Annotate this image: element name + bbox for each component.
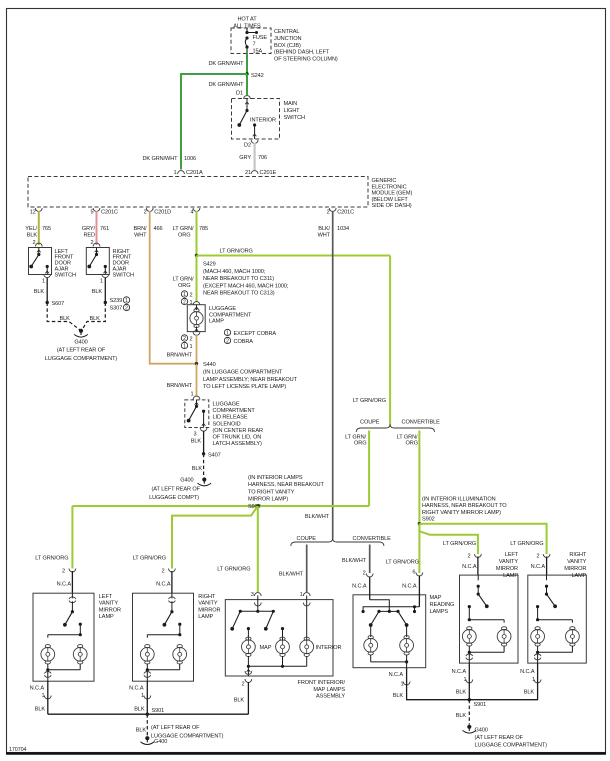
svg-text:MIRROR: MIRROR [99,607,121,613]
svg-text:SWITCH: SWITCH [113,272,135,278]
label BLK [192,466,203,472]
pin 1 right door ajar switch [100,279,103,285]
label LT GRN/ORG [35,556,68,562]
svg-text:S901: S901 [474,702,487,708]
svg-text:ORG: ORG [406,441,418,447]
svg-text:S239: S239 [110,298,123,304]
splice S239 / S307 [104,297,130,312]
svg-text:DK GRN/WHT: DK GRN/WHT [208,61,244,67]
svg-text:MIRROR: MIRROR [496,566,518,572]
svg-text:SOLENOID: SOLENOID [213,421,241,427]
svg-text:LUGGAGE: LUGGAGE [209,306,236,312]
svg-text:(AT LEFT REAR OF: (AT LEFT REAR OF [57,348,106,354]
svg-text:CONVERTIBLE: CONVERTIBLE [353,536,392,542]
svg-text:LUGGAGE COMPT): LUGGAGE COMPT) [149,495,199,501]
wire BLK front interior lamps to S901 [247,682,249,714]
svg-text:1006: 1006 [184,156,196,162]
label DK GRN/WHT 1006 [142,156,196,162]
svg-text:MODULE (GEM): MODULE (GEM) [372,191,413,197]
svg-text:VANITY: VANITY [567,559,587,565]
left door ajar switch output contact [44,265,51,278]
pin 3 solenoid [193,432,196,438]
pin D1 [236,91,250,100]
wire LT GRN/ORG S429 to luggage lamp [196,256,198,303]
svg-text:LT GRN/ORG: LT GRN/ORG [443,541,476,547]
svg-text:4: 4 [190,210,193,216]
splice S429 annotation [203,262,289,297]
labels COUPE CONVERTIBLE [360,420,440,426]
pin 2 front interior lamps [241,679,251,688]
main light switch wiper [237,99,248,127]
labels COUPE CONVERTIBLE [297,536,392,542]
label LT GRN/ORG [133,556,166,562]
label BLK/WHT [342,558,367,564]
svg-text:LT GRN/: LT GRN/ [173,277,194,283]
ground G400 label [475,728,548,749]
wire BLK S901 to G400 (convertible) [468,700,470,725]
svg-text:COBRA: COBRA [234,339,254,345]
svg-text:COMPARTMENT: COMPARTMENT [213,408,256,414]
svg-text:2: 2 [183,300,186,306]
label LT GRN/ORG [443,541,476,547]
svg-text:N.C.A: N.C.A [462,564,477,570]
svg-text:S429: S429 [203,262,216,268]
svg-text:N.C.A: N.C.A [520,669,535,675]
ground G400 label [149,478,201,502]
svg-text:2: 2 [467,554,470,560]
label DK GRN/WHT [208,82,244,88]
svg-text:2: 2 [125,306,128,312]
svg-text:12: 12 [30,210,36,216]
wire LT GRN/ORG convertible branch [418,431,420,524]
svg-text:NEAR BREAKOUT TO C311): NEAR BREAKOUT TO C311) [203,276,274,282]
svg-text:SIDE OF DASH): SIDE OF DASH) [372,203,412,209]
svg-text:LATCH ASSEMBLY): LATCH ASSEMBLY) [213,441,263,447]
splice S429 [195,254,198,257]
svg-text:1: 1 [183,292,186,298]
svg-text:(IN INTERIOR ILLUMINATION: (IN INTERIOR ILLUMINATION [422,497,496,503]
pin D2 [244,140,258,149]
svg-text:TO LEFT LICENSE PLATE LAMP): TO LEFT LICENSE PLATE LAMP) [203,384,286,390]
svg-text:2: 2 [363,571,366,577]
svg-text:2: 2 [183,336,186,342]
svg-text:LID RELEASE: LID RELEASE [213,415,248,421]
svg-text:(IN LUGGAGE COMPARTMENT: (IN LUGGAGE COMPARTMENT [203,370,283,376]
svg-text:LT GRN/ORG: LT GRN/ORG [386,560,419,566]
svg-text:D1: D1 [236,91,243,97]
svg-text:G400: G400 [180,478,193,484]
label BLK [524,690,535,696]
wire BLK right vanity to S901 (convertible) [469,663,537,700]
solenoid switch blade [187,400,199,423]
wire BRN/WHT luggage lamp to S440 [196,335,198,364]
svg-text:MIRROR: MIRROR [564,566,586,572]
front interior map lamps assembly label [298,680,346,700]
svg-text:170704: 170704 [9,747,26,753]
coupe/convertible brace (BLK/WHT) [291,538,384,546]
central junction box (CJB) outline [231,28,271,54]
svg-text:RIGHT: RIGHT [569,552,587,558]
splice S902 (convertible) [418,522,421,525]
legend except cobra / cobra [224,329,276,345]
svg-text:MAP LAMPS: MAP LAMPS [313,687,345,693]
svg-text:G400: G400 [475,728,488,734]
GEM pin 2 C201C [327,208,354,216]
svg-text:NEAR BREAKOUT TO C313): NEAR BREAKOUT TO C313) [203,291,275,297]
svg-text:GENERIC: GENERIC [372,178,397,184]
svg-text:(IN INTERIOR LAMPS: (IN INTERIOR LAMPS [248,475,303,481]
svg-text:3: 3 [193,432,196,438]
svg-text:G400: G400 [154,739,167,745]
svg-text:YEL/: YEL/ [25,226,37,232]
right front door ajar switch outline [86,248,109,275]
node HOT AT ALL TIMES feed [233,17,261,30]
pin 1 map reading lamps [389,672,410,688]
pin 2 left door ajar switch [32,240,42,247]
svg-text:JUNCTION: JUNCTION [274,36,302,42]
svg-text:LEFT: LEFT [505,552,519,558]
svg-text:LT GRN/ORG: LT GRN/ORG [217,567,250,573]
svg-text:LAMP: LAMP [571,573,586,579]
wire INTERIOR contact to D2 [253,123,257,139]
svg-text:LAMP: LAMP [99,614,114,620]
solenoid label [213,402,263,448]
svg-text:RIGHT VANITY MIRROR LAMP): RIGHT VANITY MIRROR LAMP) [422,510,501,516]
svg-text:BLK/WHT: BLK/WHT [279,572,304,578]
label BLK [134,707,145,713]
splice S242 [245,72,263,79]
svg-text:2: 2 [190,336,193,342]
label BLK [393,693,404,699]
wire BLK/WHT coupe branch to front interior lamps [306,545,308,593]
svg-text:LAMP: LAMP [198,614,213,620]
svg-text:BLK: BLK [60,316,71,322]
svg-text:TO RIGHT VANITY: TO RIGHT VANITY [248,489,295,495]
svg-text:GRY/: GRY/ [82,226,96,232]
svg-text:S242: S242 [251,73,264,79]
svg-text:INTERIOR: INTERIOR [250,118,276,124]
label LT GRN/ORG 785 [173,226,208,239]
svg-text:1: 1 [190,392,193,398]
svg-text:BLK: BLK [192,466,203,472]
GEM pin 4 [190,208,199,216]
svg-text:3: 3 [251,592,254,598]
svg-text:2: 2 [32,240,35,246]
pin 21 C201E [245,170,277,176]
wire BLK S239 to G400 [82,303,105,331]
pin 1 left vanity (coupe) [30,686,52,700]
svg-text:(AT LEFT REAR OF: (AT LEFT REAR OF [475,735,524,741]
svg-text:BLK: BLK [456,690,467,696]
svg-text:1034: 1034 [337,226,349,232]
splice S901 (convertible) [468,698,487,708]
right front door ajar switch label [113,249,135,279]
left door ajar switch blade [29,248,40,269]
splice S607 [46,301,65,307]
splice S440 annotation [203,370,298,391]
svg-text:1: 1 [100,279,103,285]
GEM pin 2 C201D [144,208,171,216]
label LT GRN/ORG [397,435,418,447]
svg-text:OF STEERING COLUMN): OF STEERING COLUMN) [274,57,338,63]
svg-text:(EXCEPT MACH 460, MACH 1000;: (EXCEPT MACH 460, MACH 1000; [203,283,289,289]
pin 2 (cobra) [181,335,192,343]
svg-text:INTERIOR: INTERIOR [316,645,342,651]
svg-text:N.C.A: N.C.A [389,672,404,678]
svg-text:D2: D2 [244,143,251,149]
wire BLK left vanity to S901 [47,681,49,714]
svg-text:15A: 15A [253,48,263,54]
right vanity mirror lamp (coupe) [133,569,221,682]
wire BLK S407 to G400 [203,454,205,477]
wire LT GRN/ORG to front interior lamps [257,506,259,592]
svg-text:COMPARTMENT: COMPARTMENT [209,312,252,318]
svg-text:C201E: C201E [260,170,277,176]
label BLK [92,289,103,295]
pin 1 solenoid [190,392,199,400]
svg-text:SWITCH: SWITCH [284,115,306,121]
right vanity mirror lamp (convertible) [528,552,587,663]
svg-text:1: 1 [190,344,193,350]
svg-text:CONVERTIBLE: CONVERTIBLE [402,420,441,426]
svg-text:C201C: C201C [101,210,118,216]
pin 1 left door ajar switch [42,279,45,285]
svg-text:C201A: C201A [186,170,203,176]
wire LT GRN/ORG to right vanity (coupe) [172,506,258,569]
svg-text:COUPE: COUPE [360,420,380,426]
GEM pin 5 C201C [90,208,117,216]
svg-text:(MACH 460, MACH 1000;: (MACH 460, MACH 1000; [203,269,266,275]
svg-text:BOX (CJB): BOX (CJB) [274,43,301,49]
label BLK [34,289,45,295]
left vanity mirror lamp (coupe) [33,569,121,682]
svg-text:LAMP ASSEMBLY; NEAR BREAKOUT: LAMP ASSEMBLY; NEAR BREAKOUT [203,377,298,383]
svg-text:N.C.A: N.C.A [452,669,467,675]
svg-text:CENTRAL: CENTRAL [274,29,299,35]
svg-text:LEFT: LEFT [99,594,113,600]
svg-text:1: 1 [125,298,128,304]
svg-text:BLK/: BLK/ [318,226,330,232]
pin 2 (except cobra) [181,291,192,299]
wire BRN/WHT S440 to solenoid [196,364,198,397]
svg-text:765: 765 [42,226,51,232]
label LT GRN/ORG [173,277,194,290]
svg-text:N.C.A: N.C.A [402,584,417,590]
svg-text:BLK: BLK [393,693,404,699]
svg-text:LT GRN/ORG: LT GRN/ORG [133,556,166,562]
label BLK/WHT [279,572,304,578]
svg-text:N.C.A: N.C.A [156,582,171,588]
svg-text:RED: RED [83,233,95,239]
label LT GRN/ORG [217,567,250,573]
svg-text:2: 2 [226,339,229,345]
fuse value label FUSE 7 15A [253,35,268,54]
wire LT GRN/ORG 785 [196,211,198,256]
svg-text:LUGGAGE: LUGGAGE [213,402,240,408]
svg-text:LIGHT: LIGHT [284,108,301,114]
solenoid output contact [200,410,207,432]
left front door ajar switch outline [29,248,52,275]
splice S407 [202,452,221,458]
svg-text:READING: READING [430,602,455,608]
svg-text:BLK: BLK [234,698,245,704]
GEM pin 12 [30,208,42,216]
svg-text:WHT: WHT [318,233,331,239]
svg-text:MIRROR: MIRROR [198,607,220,613]
coupe/convertible brace [356,424,434,432]
wire BLK/WHT 1034 GEM to coupe/convertible split [332,211,334,538]
svg-text:(BEHIND DASH, LEFT: (BEHIND DASH, LEFT [274,50,330,56]
svg-text:466: 466 [154,226,163,232]
svg-text:785: 785 [199,226,208,232]
svg-text:HARNESS, NEAR BREAKOUT: HARNESS, NEAR BREAKOUT [248,482,325,488]
wire BLK ground bus (coupe) [48,713,249,715]
svg-text:21: 21 [245,170,251,176]
svg-text:S440: S440 [203,362,216,368]
svg-text:N.C.A: N.C.A [30,686,45,692]
GEM annotation [372,178,413,209]
svg-text:BLK: BLK [134,707,145,713]
svg-text:BRN/WHT: BRN/WHT [167,383,193,389]
svg-text:S607: S607 [52,301,65,307]
svg-text:VANITY: VANITY [99,601,119,607]
svg-text:DK GRN/WHT: DK GRN/WHT [142,156,178,162]
pin 1 left vanity (convertible) [452,669,473,683]
svg-text:BLK: BLK [456,713,467,719]
svg-text:GRY: GRY [239,155,251,161]
contact INTERIOR [250,118,276,124]
wire BLK S607 to G400 [47,303,80,331]
svg-text:FUSE: FUSE [253,35,268,41]
svg-text:(AT LEFT REAR OF: (AT LEFT REAR OF [152,487,201,493]
svg-text:BLK: BLK [92,289,103,295]
svg-text:SWITCH: SWITCH [55,272,77,278]
svg-text:1: 1 [226,331,229,337]
label LT GRN/ORG [353,398,386,404]
wire BLK left ajar to S607 [46,278,48,303]
luggage compartment lid release solenoid outline [185,400,209,428]
svg-text:BLK: BLK [34,289,45,295]
CJB annotation [274,29,338,63]
svg-text:LAMP: LAMP [209,319,224,325]
svg-text:BLK/WHT: BLK/WHT [342,558,367,564]
svg-text:7: 7 [253,42,256,48]
svg-text:706: 706 [258,155,267,161]
pin 1 (cobra) [181,298,192,306]
svg-text:(BELOW LEFT: (BELOW LEFT [372,197,409,203]
svg-text:ORG: ORG [178,233,190,239]
wire GRY/RED 761 [96,211,98,245]
svg-text:VANITY: VANITY [198,601,218,607]
wire DK GRN/WHT S242 to GEM C201A [181,74,247,170]
wire BLK map reading lamps to S901 [407,668,470,700]
wire LT GRN/ORG to map reading lamps [418,524,420,573]
svg-text:COUPE: COUPE [297,536,317,542]
splice S901 (coupe) [146,708,165,716]
wire BLK solenoid to S407 [203,431,205,454]
wire LT GRN/ORG S429 to coupe/convertible split [197,255,391,257]
label YEL/BLK 765 [25,226,51,239]
svg-text:S901: S901 [152,708,165,714]
front interior map lamps assembly [225,592,341,676]
svg-text:G400: G400 [74,340,87,346]
wire BLK/WHT convertible branch to map reading lamps [369,545,371,574]
label BLK [90,316,101,322]
wire LT GRN/ORG to left vanity (coupe) [71,506,73,569]
svg-text:LT GRN/: LT GRN/ [173,226,194,232]
svg-text:LT GRN/ORG: LT GRN/ORG [35,556,68,562]
label LT GRN/ORG [345,435,366,447]
label BLK [456,690,467,696]
ground G400 label [151,725,224,745]
label BLK/WHT [305,514,330,520]
right door ajar switch blade [87,248,98,269]
svg-text:OF TRUNK LID, ON: OF TRUNK LID, ON [213,435,262,441]
svg-text:BLK: BLK [191,439,202,445]
luggage compartment lamp outline [187,305,205,332]
wire LT GRN/ORG split feed [389,256,391,425]
svg-text:DK GRN/WHT: DK GRN/WHT [208,82,244,88]
wire DK GRN/WHT S242 to D1 [246,74,248,95]
label BLK [191,439,202,445]
ground G400 [74,329,88,337]
label BLK [456,713,467,719]
label LT GRN/ORG [510,541,543,547]
label BLK [234,698,245,704]
svg-text:BLK/WHT: BLK/WHT [305,514,330,520]
svg-text:LT GRN/ORG: LT GRN/ORG [510,541,543,547]
svg-text:N.C.A: N.C.A [531,564,546,570]
svg-text:BLK: BLK [136,728,147,734]
wire GRY 706 to GEM C201E [254,143,256,170]
svg-text:2: 2 [62,569,65,575]
map reading lamps [352,570,426,668]
left front door ajar switch label [55,249,77,279]
svg-text:BLK: BLK [90,316,101,322]
label BLK [136,728,147,734]
svg-text:FRONT INTERIOR/: FRONT INTERIOR/ [298,680,346,686]
svg-text:6: 6 [412,570,415,576]
svg-text:2: 2 [144,210,147,216]
svg-text:HARNESS, NEAR BREAKOUT TO: HARNESS, NEAR BREAKOUT TO [422,503,507,509]
svg-text:RIGHT: RIGHT [198,594,216,600]
label LT GRN/ORG [386,560,419,566]
svg-text:BLK: BLK [27,233,38,239]
svg-text:2: 2 [190,292,193,298]
ground G400 (convertible lamps) [463,725,477,733]
luggage lamp input pin [193,302,200,305]
wire LT GRN/ORG to left vanity (convertible) [419,524,478,554]
svg-text:MAIN: MAIN [284,101,298,107]
pin 1 right vanity (convertible) [520,669,541,683]
wire YEL/BLK 765 [38,211,40,245]
splice S902 (coupe) [256,504,259,507]
svg-text:LAMP: LAMP [503,573,518,579]
svg-text:BRN/: BRN/ [134,226,148,232]
svg-text:2: 2 [536,554,539,560]
svg-text:BRN/WHT: BRN/WHT [167,353,193,359]
svg-text:N.C.A: N.C.A [352,584,367,590]
wire BLK right vanity to S901 [146,681,148,714]
wire BLK right ajar to S239 [104,278,106,303]
svg-text:2: 2 [161,569,164,575]
wire LT GRN/ORG coupe bus [72,505,369,507]
svg-text:ORG: ORG [354,441,366,447]
svg-text:LUGGAGE COMPARTMENT): LUGGAGE COMPARTMENT) [475,743,548,749]
svg-text:ELECTRONIC: ELECTRONIC [372,184,407,190]
svg-text:2: 2 [327,210,330,216]
main light switch label [284,101,306,121]
